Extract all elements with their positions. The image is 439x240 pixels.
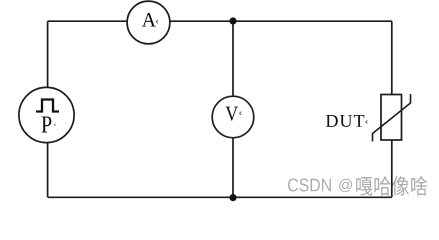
- wire top (node A rail): [48, 20, 392, 22]
- pulse source P: letter: [42, 116, 52, 132]
- ammeter A: letter: [142, 13, 156, 27]
- wire right DUT branch: [391, 21, 393, 197]
- voltmeter V: tick mark: [240, 112, 242, 115]
- ammeter A: circle: [127, 1, 170, 44]
- varistor DUT: diagonal stroke: [373, 94, 411, 142]
- pulse source P: circle: [19, 87, 74, 142]
- voltmeter V: letter: [226, 107, 238, 121]
- wire left: [47, 21, 49, 197]
- junction node top: [229, 17, 236, 24]
- wire bottom (return rail): [48, 196, 392, 198]
- varistor DUT: body rect: [381, 95, 402, 141]
- wire middle voltmeter branch: [232, 21, 234, 197]
- pulse source P: tick mark: [54, 124, 55, 126]
- ammeter A: tick mark: [156, 20, 158, 23]
- label DUT: tick mark: [366, 120, 368, 123]
- label DUT: [326, 115, 364, 127]
- junction node bottom: [229, 194, 236, 201]
- voltmeter V: circle: [212, 96, 254, 138]
- watermark CSDN @嘎哈像啥 (white emboss layer): [289, 177, 428, 197]
- watermark CSDN @嘎哈像啥 (gray layer): [288, 176, 427, 196]
- pulse source P: waveform symbol: [36, 100, 59, 112]
